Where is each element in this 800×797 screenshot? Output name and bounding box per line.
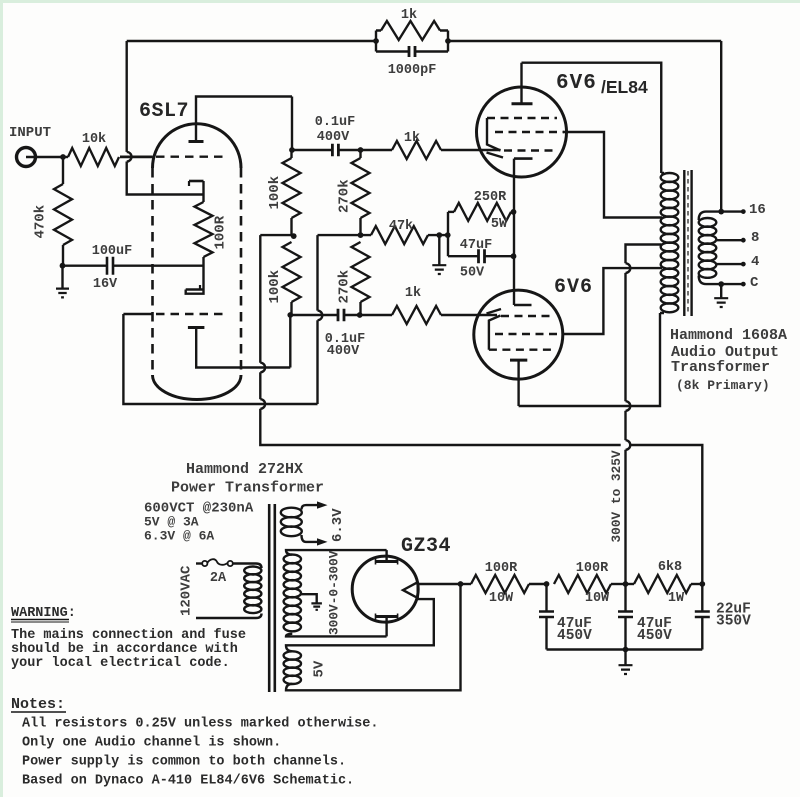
wire front-end B+ link <box>260 234 293 236</box>
PT core <box>269 504 275 692</box>
wire V3 plate to OPT <box>519 313 660 406</box>
OPT primary winding <box>660 173 678 313</box>
wire plate2 node left <box>289 315 291 368</box>
tube V1b grid <box>156 313 225 315</box>
OPT core <box>684 170 691 316</box>
label C3 0.1uF <box>325 332 366 347</box>
svg-text:6k8: 6k8 <box>658 560 682 575</box>
svg-text:100R: 100R <box>213 215 229 249</box>
label 1000pF <box>388 63 437 78</box>
tube V1 envelope bottom arc <box>153 375 242 400</box>
OPT secondary C tap <box>699 276 742 285</box>
tube V4 envelope <box>352 556 418 622</box>
wire input to node <box>26 156 63 158</box>
tube V2 beam tick <box>487 153 504 158</box>
wire B+ front-end drop <box>260 235 620 445</box>
label 120VAC <box>179 565 195 616</box>
tube V3 beam tick <box>487 309 502 314</box>
wire feedback drop lower <box>127 162 204 195</box>
svg-text:250R: 250R <box>474 190 507 205</box>
label Transformer <box>671 359 770 376</box>
wire plate1 node drop <box>291 97 293 151</box>
node input junction <box>60 154 66 160</box>
node B+ front-end <box>291 233 297 239</box>
PT 6.3V winding <box>281 508 302 537</box>
svg-text:6SL7: 6SL7 <box>139 100 189 123</box>
label C4 47uF <box>460 238 492 253</box>
svg-text:(8k Primary): (8k Primary) <box>676 378 770 393</box>
svg-text:Only one Audio channel is show: Only one Audio channel is shown. <box>22 736 281 751</box>
svg-text:16V: 16V <box>93 277 118 292</box>
label 100R <box>213 215 229 249</box>
label C6 47uF <box>637 616 672 632</box>
label 6k8 <box>658 560 682 575</box>
label 8 <box>751 230 759 246</box>
tube V3 envelope <box>474 290 563 379</box>
node feedback box right <box>445 38 451 44</box>
capacitor C4 47uF bias <box>479 249 485 263</box>
label 47k <box>389 219 413 234</box>
wire C2 to node <box>338 149 392 151</box>
label 100R first <box>485 561 518 576</box>
svg-text:All resistors 0.25V unless mar: All resistors 0.25V unless marked otherw… <box>22 717 378 732</box>
svg-text:400V: 400V <box>317 130 350 145</box>
svg-text:1k: 1k <box>401 8 417 23</box>
tube V2 g1 lead <box>487 118 501 151</box>
tube V1b cathode <box>186 285 204 290</box>
svg-text:8: 8 <box>751 230 759 246</box>
label 6V6 upper <box>556 72 597 95</box>
label 100k lower <box>267 270 283 304</box>
wire feedback top rail right <box>448 40 721 42</box>
PT 6.3V top lead <box>302 505 319 509</box>
label warning line2 <box>11 642 238 657</box>
tube V1 envelope arch <box>153 124 242 168</box>
svg-text:Notes:: Notes: <box>11 696 65 713</box>
resistor R7 100k lower <box>283 242 301 315</box>
svg-text:Power Transformer: Power Transformer <box>171 480 324 497</box>
input jack J1 <box>17 148 36 167</box>
wire parallel box <box>376 31 448 52</box>
tube V4 plate top <box>376 550 398 564</box>
label 300V-0-300V <box>327 550 342 635</box>
wire filter bottom rail <box>547 648 703 650</box>
wire C3 to node <box>344 314 392 316</box>
svg-text:5V: 5V <box>312 660 328 677</box>
resistor R8 270k lower <box>352 242 370 315</box>
label 6V6 lower <box>554 276 593 299</box>
resistor R6 1k grid upper <box>392 141 441 159</box>
label 10W first <box>489 591 514 606</box>
svg-text:450V: 450V <box>637 628 672 644</box>
svg-text:should be in accordance with: should be in accordance with <box>11 642 238 657</box>
capacitor C1 100uF <box>107 257 113 275</box>
PT 5V top lead <box>286 599 434 651</box>
label 250R <box>474 190 507 205</box>
label 16 <box>749 202 766 218</box>
svg-text:400V: 400V <box>327 344 360 359</box>
node filter2 <box>623 581 629 587</box>
svg-text:47k: 47k <box>389 219 413 234</box>
svg-text:Power supply is common to both: Power supply is common to both channels. <box>22 755 346 770</box>
resistor R12 100R first <box>461 575 547 593</box>
capacitor C7 22uF 350V <box>695 584 710 650</box>
PT 5V winding <box>284 651 301 684</box>
label C5 47uF <box>557 616 592 632</box>
wire feedback top rail left <box>127 40 376 42</box>
svg-text:INPUT: INPUT <box>9 125 51 141</box>
svg-text:300V-0-300V: 300V-0-300V <box>327 550 342 635</box>
label 300V to 325V <box>609 450 624 542</box>
resistor R13 100R second <box>554 575 626 593</box>
svg-text:1000pF: 1000pF <box>388 63 437 78</box>
svg-text:270k: 270k <box>337 270 353 304</box>
svg-text:5W: 5W <box>491 217 508 232</box>
label C7 350V <box>716 614 751 630</box>
wire cap to cathode resistor <box>114 265 204 267</box>
tube V2 envelope <box>477 87 567 177</box>
label Hammond 272HX <box>186 461 303 478</box>
tube V3 g1 <box>489 349 554 351</box>
label Power Transformer <box>171 480 324 497</box>
tube V3 g1 lead <box>489 316 501 350</box>
svg-text:/EL84: /EL84 <box>601 77 648 97</box>
label note line3 <box>22 755 346 770</box>
label GZ34 <box>401 535 451 558</box>
wire feedback drop to cathode <box>125 41 127 152</box>
svg-text:your local electrical code.: your local electrical code. <box>11 656 230 671</box>
OPT secondary 4 tap <box>716 263 741 265</box>
label 4 <box>751 254 759 270</box>
arrow 6.3V bottom <box>317 538 328 545</box>
label Notes heading <box>11 696 66 713</box>
label 16V <box>93 277 118 292</box>
svg-text:470k: 470k <box>33 205 49 239</box>
svg-text:100R: 100R <box>576 561 609 576</box>
node C3 out <box>357 312 363 318</box>
wire mains bottom lead <box>196 614 262 619</box>
wire mains top lead to coil <box>233 564 262 569</box>
svg-text:10W: 10W <box>489 591 514 606</box>
wire to C3 <box>290 314 338 316</box>
label C2 400V <box>317 130 350 145</box>
svg-text:100k: 100k <box>267 270 283 304</box>
label note line1 <box>22 717 378 732</box>
resistor R1 10k <box>63 148 119 166</box>
label C7 22uF <box>716 602 751 618</box>
label INPUT <box>9 125 51 141</box>
wire 1k to V2 grid <box>441 149 501 151</box>
label 1k upper <box>404 131 420 146</box>
resistor R14 6k8 <box>626 575 703 593</box>
label 10k <box>82 132 106 147</box>
label 10W second <box>585 591 610 606</box>
tube V4 plate bottom <box>376 614 398 637</box>
label 270k lower <box>337 270 353 304</box>
tube V4 filament <box>403 582 418 598</box>
svg-text:C: C <box>750 275 759 291</box>
label 6SL7 V1 <box>139 100 189 123</box>
wire cathode bus <box>513 212 515 291</box>
svg-text:5V @ 3A: 5V @ 3A <box>144 515 199 530</box>
svg-text:10W: 10W <box>585 591 610 606</box>
terminal 8 <box>741 238 746 243</box>
terminal 4 <box>741 262 746 267</box>
label 270k upper <box>337 179 353 213</box>
svg-text:1k: 1k <box>405 286 421 301</box>
wire OPT CT drop <box>626 411 631 584</box>
svg-text:The mains connection and fuse: The mains connection and fuse <box>11 628 246 643</box>
label 6.3V 6A <box>144 529 214 544</box>
capacitor C5 47uF 450V <box>539 584 554 650</box>
node 47k ground <box>436 232 442 238</box>
svg-text:100uF: 100uF <box>92 244 133 259</box>
node secondary ground <box>718 281 724 287</box>
svg-text:1k: 1k <box>404 131 420 146</box>
capacitor C3 0.1uF lower <box>338 309 344 322</box>
tube V1 envelope sides <box>153 168 242 375</box>
wire 1k to V3 grid <box>441 314 497 316</box>
label C3 400V <box>327 344 360 359</box>
svg-text:Based on Dynaco A-410 EL84/6V6: Based on Dynaco A-410 EL84/6V6 Schematic… <box>22 774 354 789</box>
PT 5V bottom lead <box>286 584 461 690</box>
svg-text:Hammond 1608A: Hammond 1608A <box>670 327 787 344</box>
PT 600V top lead <box>286 550 387 555</box>
ground 600V CT <box>311 603 322 609</box>
svg-text:6.3V: 6.3V <box>330 508 346 542</box>
svg-text:450V: 450V <box>557 628 592 644</box>
wire 10k to grid <box>120 156 153 158</box>
OPT secondary winding <box>699 218 717 278</box>
PT primary winding <box>244 567 261 614</box>
node feedback box left <box>373 38 379 44</box>
tube V1a grid lead <box>120 155 153 157</box>
ground filter <box>619 650 633 675</box>
label note line4 <box>22 774 354 789</box>
OPT primary CT lead <box>626 245 662 411</box>
tube V2 g1 <box>487 117 557 119</box>
svg-text:100R: 100R <box>485 561 518 576</box>
label 5V 3A <box>144 515 199 530</box>
svg-text:270k: 270k <box>337 179 353 213</box>
label 100k upper <box>267 176 283 210</box>
node 47uF right <box>511 253 517 259</box>
tube V1a grid <box>156 155 225 157</box>
capacitor C2 0.1uF upper <box>332 144 338 157</box>
PT 6.3V bottom lead <box>302 535 319 542</box>
node filter ground <box>623 647 629 653</box>
node plate1 coupling <box>289 147 295 153</box>
node filter1 <box>544 581 550 587</box>
fuse F1 2A <box>202 559 233 566</box>
svg-text:GZ34: GZ34 <box>401 535 451 558</box>
label note line2 <box>22 736 281 751</box>
label Hammond 1608A <box>670 327 787 344</box>
label C <box>750 275 759 291</box>
wire B+ rail right drop <box>630 445 702 584</box>
svg-text:120VAC: 120VAC <box>179 565 195 616</box>
resistor R11 250R <box>448 203 514 221</box>
tube V1b grid lead <box>123 313 152 315</box>
wire grid2 drive <box>123 314 317 404</box>
terminal 16 <box>741 209 746 214</box>
resistor R5 270k upper <box>352 150 370 235</box>
svg-text:47uF: 47uF <box>460 238 492 253</box>
label 5W <box>491 217 508 232</box>
label /EL84 <box>601 77 648 97</box>
node plate2 coupling <box>287 312 293 318</box>
PT 600V centre tap <box>300 594 317 603</box>
label warning line1 <box>11 628 246 643</box>
svg-text:50V: 50V <box>460 266 485 281</box>
svg-text:Hammond 272HX: Hammond 272HX <box>186 461 303 478</box>
wire V2 plate to OPT <box>522 63 662 173</box>
PT 600V bottom lead <box>286 634 387 637</box>
node 470k bottom <box>60 263 66 269</box>
wire V3 screen <box>563 268 662 334</box>
svg-text:WARNING:: WARNING: <box>11 606 76 621</box>
tube V1a plate <box>189 97 293 142</box>
svg-text:16: 16 <box>749 202 766 218</box>
label 1W <box>668 591 685 606</box>
OPT secondary 16 tap <box>699 212 742 220</box>
label C4 50V <box>460 266 485 281</box>
wire divider link <box>318 234 372 236</box>
node bias left <box>445 232 451 238</box>
node feedback takeoff <box>718 209 724 215</box>
tube V2 g3 <box>504 149 557 151</box>
label 6.3V <box>330 508 346 542</box>
resistor R9 47k <box>371 226 428 244</box>
svg-text:1W: 1W <box>668 591 685 606</box>
label 100R second <box>576 561 609 576</box>
wire hook over grid1 <box>127 152 132 162</box>
svg-text:100k: 100k <box>267 176 283 210</box>
PT 600V winding <box>284 555 301 632</box>
resistor R3 100R cathode <box>195 202 213 257</box>
svg-text:0.1uF: 0.1uF <box>315 115 356 130</box>
wire V2 screen <box>563 132 662 218</box>
svg-text:10k: 10k <box>82 132 106 147</box>
node divider mid <box>358 232 364 238</box>
resistor R10 1k grid lower <box>392 306 441 324</box>
node filter3 <box>699 581 705 587</box>
tube V1a cathode <box>189 181 204 202</box>
ground OPT secondary <box>714 284 728 307</box>
node C2 out <box>358 147 364 153</box>
wire V4 cathode out <box>418 583 461 585</box>
label 1k lower <box>405 286 421 301</box>
wire bias bottom rail <box>448 255 514 257</box>
tube V2 plate <box>512 63 533 104</box>
tube V1b plate <box>188 328 290 368</box>
label C5 450V <box>557 628 592 644</box>
svg-text:6.3V @ 6A: 6.3V @ 6A <box>144 529 214 544</box>
label C6 450V <box>637 628 672 644</box>
label Audio Output <box>671 344 779 361</box>
label C2 0.1uF <box>315 115 356 130</box>
wire bias left rail <box>447 212 449 256</box>
OPT secondary 8 tap <box>716 239 741 241</box>
label 600VCT <box>144 501 254 517</box>
svg-text:Transformer: Transformer <box>671 359 770 376</box>
resistor R2 470k <box>54 157 72 266</box>
label 2A <box>210 571 227 586</box>
label WARNING heading <box>11 606 76 622</box>
tube V2 g2 <box>495 131 564 133</box>
wire to C2 <box>292 149 333 151</box>
svg-text:2A: 2A <box>210 571 227 586</box>
svg-text:6V6: 6V6 <box>554 276 593 299</box>
ground input <box>56 266 69 298</box>
tube V3 g3 <box>501 315 554 317</box>
wire feedback riser <box>720 41 722 212</box>
wire cap feed <box>63 265 106 267</box>
wire grid2 drive riser <box>318 235 323 404</box>
ground 47k <box>432 235 446 274</box>
tube V2 cathode <box>514 159 533 212</box>
svg-text:4: 4 <box>751 254 759 270</box>
wire mains top lead <box>196 562 202 564</box>
label 8k Primary <box>676 378 770 393</box>
wire 47k to ground node <box>428 234 448 236</box>
svg-text:350V: 350V <box>716 614 751 630</box>
label 1k feedback <box>401 8 417 23</box>
svg-text:6V6: 6V6 <box>556 72 597 95</box>
capacitor C-fb 1000pF <box>409 46 415 57</box>
resistor R-fb 1k <box>381 21 440 40</box>
tube V3 plate <box>510 360 527 406</box>
arrow 6.3V top <box>317 501 328 508</box>
label 100uF <box>92 244 133 259</box>
label warning line3 <box>11 656 230 671</box>
label 470k <box>33 205 49 239</box>
node rectifier output <box>458 581 464 587</box>
svg-text:300V to 325V: 300V to 325V <box>609 450 624 542</box>
tube V3 g2 <box>495 333 564 335</box>
capacitor C6 47uF 450V <box>618 584 633 650</box>
resistor R4 100k upper <box>283 150 301 236</box>
tube V3 cathode <box>514 291 532 306</box>
wire 100R bottom <box>186 257 204 294</box>
terminal C <box>741 282 746 287</box>
label 5V <box>312 660 328 677</box>
node 250R right <box>511 209 517 215</box>
